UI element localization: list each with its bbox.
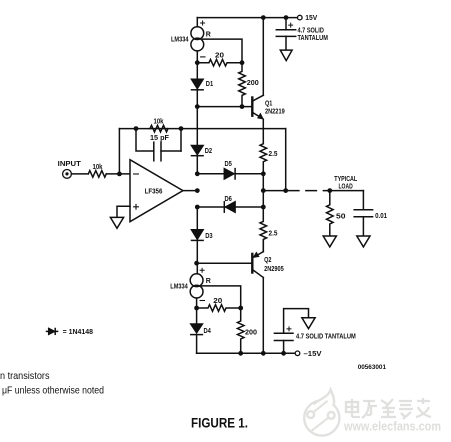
svg-text:INPUT: INPUT <box>58 161 82 168</box>
svg-text:D1: D1 <box>206 81 213 88</box>
wire Q1 base row <box>197 106 251 108</box>
svg-text:2N2219: 2N2219 <box>265 108 285 115</box>
junction bottom rail / 200 ohm <box>238 351 243 356</box>
wire LM334 top R pin to 200 ohm column <box>203 39 242 63</box>
junction 20 ohm row right <box>240 60 245 65</box>
label + (LM334 bottom) <box>200 268 204 272</box>
label - (LM334 bottom) <box>200 300 204 302</box>
current source LM334 (bottom) <box>190 274 203 298</box>
diode D3 <box>192 207 204 274</box>
junction D6 row left <box>195 205 200 210</box>
svg-text:www.elecfans.com: www.elecfans.com <box>343 419 441 434</box>
svg-text:LOAD: LOAD <box>339 184 353 191</box>
diode D6 <box>224 202 235 212</box>
label + (C1) <box>289 23 293 27</box>
wire dashed to typical load <box>288 190 329 192</box>
svg-text:0.01: 0.01 <box>375 213 387 220</box>
svg-text:D4: D4 <box>204 328 211 335</box>
ground (op-amp + input) <box>110 217 123 228</box>
svg-text:FIGURE 1.: FIGURE 1. <box>191 416 248 431</box>
junction inverting input node <box>117 172 122 177</box>
wire LM334 bottom R pin to 200 ohm column <box>202 286 241 308</box>
label - (op-amp inverting) <box>134 173 139 175</box>
svg-text:10k: 10k <box>154 119 164 126</box>
junction D6 row right <box>261 205 266 210</box>
label + (C2) <box>287 327 291 331</box>
resistor 2.5 (upper) <box>260 144 267 174</box>
svg-text:LF356: LF356 <box>145 188 163 195</box>
resistor 200 (top) <box>239 63 246 107</box>
svg-text:Q2: Q2 <box>264 257 271 264</box>
svg-text:20: 20 <box>213 298 222 305</box>
wire Q1 collector to top rail <box>262 18 264 96</box>
watermark chinese characters <box>346 398 431 419</box>
wire bottom rail -15V <box>197 352 296 354</box>
resistor 2.5 (lower) <box>260 207 267 252</box>
junction output / column C <box>261 188 266 193</box>
junction base row / 200 ohm <box>240 104 245 109</box>
svg-text:μF unless otherwise noted: μF unless otherwise noted <box>2 384 104 396</box>
diode D5 <box>224 169 235 179</box>
svg-text:200: 200 <box>245 329 257 336</box>
wire Q1 emitter down <box>262 119 264 144</box>
wire D6 row <box>197 206 263 208</box>
diode D1 <box>192 63 204 107</box>
label - (LM334 top) <box>201 56 205 58</box>
junction output / column A <box>195 188 200 193</box>
resistor 10k (feedback) <box>150 125 168 132</box>
svg-text:= 1N4148: = 1N4148 <box>63 329 93 336</box>
svg-text:10k: 10k <box>93 164 103 171</box>
svg-text:4.7 SOLID: 4.7 SOLID <box>298 27 324 34</box>
svg-text:2N2905: 2N2905 <box>264 266 284 273</box>
node 15V terminal <box>298 15 303 20</box>
capacitor 0.01 load <box>354 191 372 236</box>
resistor 200 (bottom) <box>237 308 244 353</box>
wire top rail +15V <box>197 17 297 19</box>
junction 20 ohm row bottom right <box>238 306 243 311</box>
node -15V terminal <box>295 351 300 356</box>
svg-text:–15V: –15V <box>304 351 322 358</box>
svg-text:R: R <box>206 278 211 285</box>
junction output / feedback <box>283 188 288 193</box>
wire load node to load cap <box>330 190 364 192</box>
wire op-amp output to column A <box>183 190 197 192</box>
svg-text:TYPICAL: TYPICAL <box>334 176 357 183</box>
wire column C to feedback node <box>263 190 285 192</box>
svg-text:2.5: 2.5 <box>269 151 278 158</box>
ground (top right) <box>280 50 292 61</box>
wire LM334 bottom minus to 20 ohm row <box>196 298 198 308</box>
resistor 20 (bottom) <box>197 305 241 312</box>
svg-text:20: 20 <box>215 53 224 60</box>
diode D4 <box>191 308 203 353</box>
diode D2 <box>192 107 204 174</box>
junction 20 ohm row bottom left <box>194 306 199 311</box>
junction feedback cap left <box>134 126 139 131</box>
op-amp U1 LF356 <box>130 160 183 222</box>
wire input to R 10k <box>71 173 88 175</box>
svg-text:D5: D5 <box>225 161 232 168</box>
svg-text:00563001: 00563001 <box>358 364 387 371</box>
wire non-inverting input to ground <box>117 206 130 217</box>
junction D5 row right <box>261 171 266 176</box>
svg-text:R: R <box>206 32 211 39</box>
wire feedback vertical <box>118 129 120 174</box>
wire column C between D5 and D6 rows <box>262 174 264 207</box>
svg-text:LM334: LM334 <box>171 37 189 44</box>
wire D5 row <box>197 173 263 175</box>
svg-text:D3: D3 <box>205 233 212 240</box>
svg-text:LM334: LM334 <box>170 284 188 291</box>
svg-text:D2: D2 <box>205 148 212 155</box>
ground (0.01 cap) <box>357 236 370 247</box>
label 4.7 SOLID TANTALUM (top) <box>298 27 329 42</box>
watermark logo elecfans <box>304 390 339 436</box>
junction bottom rail / Q2 collector <box>261 351 266 356</box>
svg-text:Q1: Q1 <box>265 101 272 108</box>
wire Q2 collector to bottom rail <box>262 278 264 354</box>
wire R10k to op-amp inverting input <box>106 173 130 175</box>
note diode symbol = 1N4148 <box>47 329 58 335</box>
svg-text:D6: D6 <box>225 196 232 203</box>
svg-text:15V: 15V <box>305 15 317 22</box>
junction 20 ohm row left <box>195 60 200 65</box>
node INPUT terminal <box>63 170 72 179</box>
wire Q2 emitter up <box>262 240 264 251</box>
ground (bottom right) <box>302 318 315 329</box>
svg-text:n transistors: n transistors <box>0 370 50 382</box>
resistor 20 (top) <box>197 59 242 66</box>
label + (op-amp non-inverting) <box>134 204 139 209</box>
ground (50 ohm) <box>323 236 336 247</box>
junction D5 row left <box>195 171 200 176</box>
capacitor C1 4.7 solid tantalum (top) <box>276 18 295 51</box>
capacitor 15 pF feedback <box>136 129 181 161</box>
junction feedback cap right <box>179 126 184 131</box>
capacitor C2 4.7 solid tantalum (bottom) <box>274 309 308 354</box>
transistor Q1 2N2219 <box>252 95 264 119</box>
current source LM334 (top) <box>191 27 204 51</box>
junction load node <box>327 188 332 193</box>
resistor 50 load <box>327 191 334 236</box>
junction bottom rail / C bypass <box>281 351 286 356</box>
wire feedback top row <box>119 128 285 130</box>
label + (LM334 top) <box>201 21 205 25</box>
transistor Q2 2N2905 <box>252 252 263 278</box>
junction top rail / C bypass <box>284 15 289 20</box>
wire feedback right down to output node <box>285 129 287 191</box>
svg-text:50: 50 <box>336 213 346 220</box>
svg-text:200: 200 <box>247 80 259 87</box>
junction top rail / Q1 collector <box>261 15 266 20</box>
junction base row / column A <box>195 104 200 109</box>
wire Q2 base row <box>197 262 252 264</box>
wire LM334 top + terminal <box>196 18 198 27</box>
svg-text:TANTALUM: TANTALUM <box>298 35 329 42</box>
svg-text:2.5: 2.5 <box>269 231 278 238</box>
wire LM334 top minus to 20 ohm row <box>196 51 198 63</box>
resistor 10k (input) <box>88 171 106 178</box>
svg-text:15 pF: 15 pF <box>150 135 170 142</box>
junction Q2 base row / column A <box>194 261 199 266</box>
svg-text:4.7 SOLID TANTALUM: 4.7 SOLID TANTALUM <box>296 334 356 341</box>
